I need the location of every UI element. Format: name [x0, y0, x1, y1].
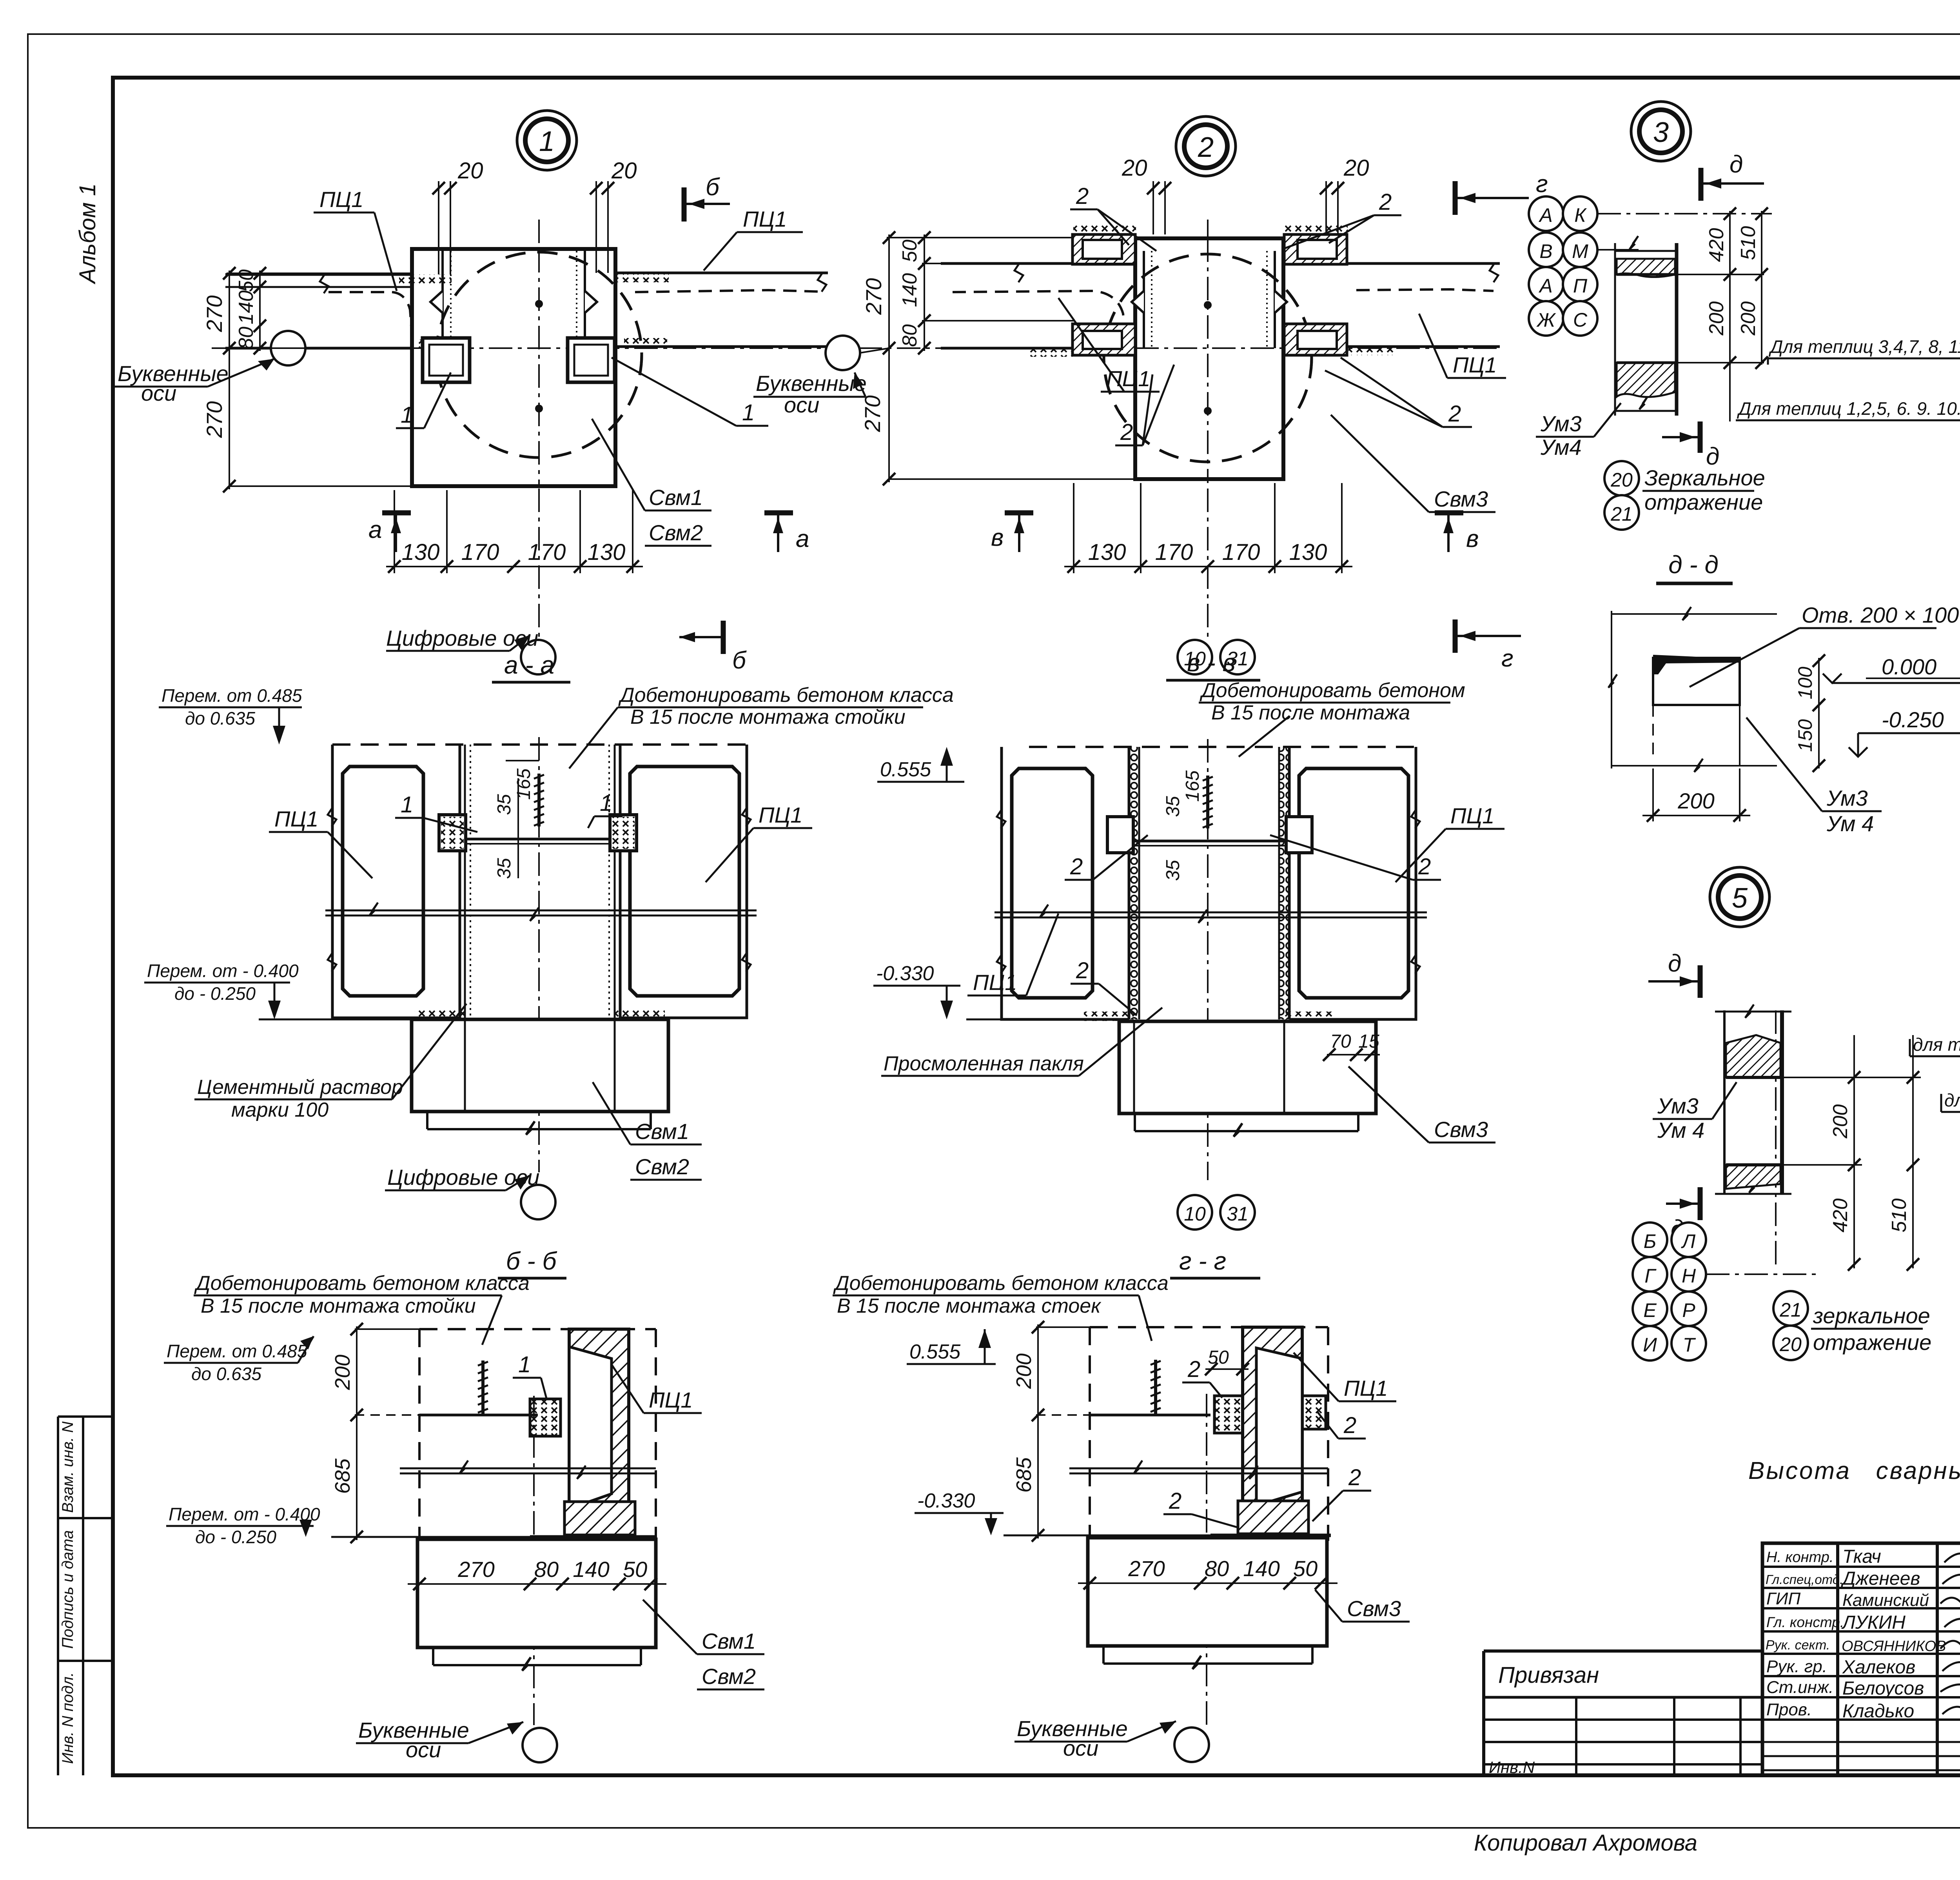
svg-text:685: 685: [1012, 1457, 1036, 1493]
svg-text:20: 20: [457, 158, 483, 183]
circles 21 20: [1773, 1291, 1808, 1326]
svg-text:-0.250: -0.250: [1882, 707, 1944, 732]
svg-text:Свм2: Свм2: [702, 1664, 756, 1689]
concrete top line: [419, 1414, 538, 1417]
digit axes label + circle: [521, 1185, 555, 1219]
circles 10 31: [1178, 1195, 1212, 1230]
svg-text:2: 2: [1343, 1413, 1356, 1438]
svg-text:2: 2: [1348, 1465, 1361, 1490]
svg-text:а: а: [796, 525, 809, 552]
section marker d top: [1701, 151, 1764, 201]
svg-text:А: А: [1538, 204, 1552, 226]
dim chain left: [1036, 1324, 1092, 1539]
axis redraw inside square: [412, 347, 615, 349]
xxx strips top: [1073, 225, 1136, 234]
svg-text:20: 20: [1610, 469, 1633, 491]
svg-text:35: 35: [494, 858, 515, 879]
svg-text:Привязан: Привязан: [1498, 1662, 1599, 1688]
bottom dims 270 80 140 50: [408, 1583, 666, 1585]
left grout strip: [443, 251, 451, 348]
svg-text:Ум3: Ум3: [1540, 411, 1582, 436]
left beam: [941, 263, 1135, 348]
axis circles 2x4: [1633, 1222, 1667, 1257]
top-left hatched block: [1073, 234, 1135, 264]
top dim 20 right: [596, 181, 608, 273]
svg-text:И: И: [1643, 1334, 1657, 1356]
svg-text:20: 20: [1343, 155, 1369, 181]
section marker d top: [1648, 950, 1700, 998]
svg-text:80: 80: [1205, 1556, 1229, 1581]
svg-text:Гл.спец,отд.: Гл.спец,отд.: [1766, 1572, 1843, 1587]
svg-text:35: 35: [1163, 796, 1183, 817]
svg-text:в: в: [991, 524, 1004, 551]
svg-text:В 15 после монтажа стоек: В 15 после монтажа стоек: [837, 1295, 1102, 1317]
svg-text:Н. контр.: Н. контр.: [1766, 1549, 1833, 1566]
svg-text:д: д: [1730, 151, 1743, 178]
left V notch: [430, 291, 443, 313]
svg-text:Г: Г: [1644, 1265, 1657, 1287]
section marker v left: [991, 513, 1033, 552]
anchor rod hatched: [1203, 776, 1213, 828]
svg-text:200: 200: [1677, 788, 1714, 813]
svg-text:2: 2: [1187, 1357, 1200, 1382]
svg-text:20: 20: [1779, 1333, 1802, 1355]
left panel: [997, 747, 1129, 1019]
dashed circle Svm3: [1104, 254, 1312, 462]
svg-text:Рук. сект.: Рук. сект.: [1766, 1638, 1830, 1653]
svg-text:50: 50: [1208, 1347, 1229, 1368]
svg-text:80: 80: [898, 324, 921, 347]
detail bubble 5: [1710, 867, 1769, 927]
svg-text:80: 80: [534, 1557, 559, 1582]
svg-text:б: б: [706, 174, 720, 201]
right V notch: [585, 291, 597, 313]
svg-text:Просмоленная пакля: Просмоленная пакля: [884, 1052, 1084, 1075]
svg-text:Добетонировать бетоном класса: Добетонировать бетоном класса: [194, 1272, 530, 1295]
svg-text:Добетонировать бетоном: Добетонировать бетоном: [1200, 679, 1465, 702]
column strip: [1715, 1004, 1791, 1195]
svg-text:420: 420: [1705, 228, 1728, 262]
hatched slab PC1: [569, 1329, 629, 1529]
grout strips with circles: [1129, 747, 1139, 1019]
left beam: [225, 274, 412, 348]
svg-text:Ум 4: Ум 4: [1826, 811, 1874, 836]
svg-text:ПЦ1: ПЦ1: [743, 207, 787, 231]
svg-text:130: 130: [588, 539, 626, 565]
svg-text:д: д: [1668, 950, 1681, 977]
svg-text:зеркальное: зеркальное: [1813, 1303, 1930, 1328]
svg-text:35: 35: [1163, 860, 1183, 881]
xxxxx strips at column base: [1084, 1012, 1134, 1021]
svg-text:170: 170: [528, 539, 566, 565]
section marker d bottom: [1666, 1187, 1700, 1242]
xxx hatch right beam top: [616, 273, 669, 282]
svg-text:510: 510: [1888, 1199, 1911, 1233]
xxxxx strips at column base: [415, 1010, 465, 1019]
section marker g bottom: [1455, 619, 1521, 672]
detail bubble 2: [1176, 116, 1236, 176]
svg-text:В 15 после монтажа: В 15 после монтажа: [1211, 701, 1410, 724]
bottom-right hatched block: [1284, 324, 1347, 355]
top dim 20 left: [1153, 181, 1165, 234]
svg-text:130: 130: [1289, 539, 1327, 565]
svg-text:1: 1: [518, 1352, 531, 1377]
svg-text:В 15 после монтажа стойки: В 15 после монтажа стойки: [201, 1295, 476, 1317]
V notches: [1132, 291, 1144, 313]
svg-text:270: 270: [202, 401, 227, 438]
svg-text:Взам. инв. N: Взам. инв. N: [59, 1421, 76, 1513]
seat box with xxx: [530, 1399, 561, 1436]
svg-text:0.000: 0.000: [1882, 654, 1936, 679]
circles 10 31: [1178, 640, 1212, 674]
svg-text:Отв. 200 × 100: Отв. 200 × 100: [1802, 603, 1959, 627]
svg-text:0.555: 0.555: [909, 1341, 961, 1363]
svg-text:ПЦ1: ПЦ1: [1106, 366, 1150, 391]
svg-text:2: 2: [1379, 189, 1392, 215]
svg-text:В 15 после монтажа стойки: В 15 после монтажа стойки: [630, 706, 906, 728]
svg-text:в: в: [1466, 525, 1479, 552]
svg-text:100: 100: [1794, 667, 1816, 699]
svg-text:Инв.N: Инв.N: [1489, 1758, 1535, 1776]
dashed circle Svm: [436, 252, 642, 458]
svg-text:ЛУКИН: ЛУКИН: [1841, 1612, 1906, 1633]
svg-text:Зеркальное: Зеркальное: [1644, 465, 1765, 490]
svg-text:оси: оси: [406, 1737, 441, 1762]
svg-text:35: 35: [494, 794, 515, 815]
svg-text:до - 0.250: до - 0.250: [195, 1527, 276, 1547]
center axis: [533, 1396, 535, 1725]
svg-text:Белоусов: Белоусов: [1842, 1678, 1924, 1699]
xxx hatch left seat: [416, 340, 459, 348]
svg-text:Свм1: Свм1: [649, 485, 703, 510]
svg-text:Свм1: Свм1: [635, 1119, 689, 1144]
svg-text:2: 2: [1198, 132, 1214, 163]
center axis: [1207, 739, 1209, 1180]
svg-text:80: 80: [235, 327, 258, 349]
center dot upper: [535, 300, 543, 308]
svg-text:5: 5: [1732, 883, 1748, 914]
svg-text:до 0.635: до 0.635: [185, 708, 255, 728]
mid break lines: [995, 905, 1427, 923]
signature squiggles: [1940, 1543, 1960, 1724]
svg-text:б: б: [732, 647, 747, 674]
svg-text:Ж: Ж: [1536, 309, 1556, 331]
svg-text:165: 165: [514, 768, 534, 800]
svg-text:Свм3: Свм3: [1347, 1596, 1401, 1621]
svg-text:Перем. от 0.485: Перем. от 0.485: [167, 1341, 307, 1361]
svg-text:Ум4: Ум4: [1540, 435, 1582, 460]
svg-text:Р: Р: [1682, 1299, 1695, 1321]
svg-text:отражение: отражение: [1644, 490, 1763, 514]
svg-text:Буквенные: Буквенные: [756, 371, 867, 396]
svg-text:отражение: отражение: [1813, 1330, 1931, 1355]
svg-text:2: 2: [1448, 401, 1461, 427]
right grout strip: [577, 251, 585, 348]
svg-text:-0.330: -0.330: [917, 1489, 975, 1512]
svg-text:до - 0.250: до - 0.250: [174, 983, 256, 1004]
svg-text:50: 50: [235, 269, 258, 292]
horizontal axis: [858, 347, 1501, 349]
svg-text:Альбом 1: Альбом 1: [75, 183, 100, 285]
anchor rod hatched: [1151, 1360, 1161, 1415]
xxx hatch left beam top: [399, 274, 452, 284]
svg-text:170: 170: [1222, 539, 1260, 565]
svg-text:ПЦ1: ПЦ1: [973, 970, 1017, 995]
letter axes label + circle: [1174, 1727, 1209, 1762]
svg-text:Каминский: Каминский: [1842, 1591, 1929, 1610]
svg-text:Добетонировать бетоном класса: Добетонировать бетоном класса: [833, 1272, 1169, 1295]
right beam: [615, 273, 828, 347]
svg-text:Кладько: Кладько: [1842, 1701, 1914, 1722]
dashed circle redraw inside square: [436, 252, 642, 458]
svg-text:1: 1: [401, 792, 413, 817]
svg-text:П: П: [1573, 275, 1588, 297]
svg-text:50: 50: [898, 240, 921, 262]
bottom dims 270 80 140 50: [1078, 1582, 1338, 1584]
top dim line: [1608, 607, 1777, 768]
svg-text:270: 270: [202, 295, 227, 332]
hatched slab PC1: [1243, 1327, 1302, 1527]
svg-text:270: 270: [457, 1557, 494, 1582]
svg-text:Е: Е: [1643, 1299, 1657, 1321]
top-right hatched block: [1284, 234, 1347, 264]
section marker v right: [1435, 513, 1479, 552]
column square outline: [1135, 238, 1283, 479]
svg-text:Свм3: Свм3: [1434, 1117, 1488, 1142]
xxx hatch right seat: [624, 338, 667, 347]
svg-text:510: 510: [1737, 226, 1760, 260]
svg-text:для теплиц 3.4,7,8,11,12,15,16: для теплиц 3.4,7,8,11,12,15,16: [1913, 1034, 1960, 1055]
anchor rod hatched: [478, 1361, 488, 1415]
dim 200 bottom: [1642, 768, 1750, 821]
axis line from N: [1706, 1273, 1819, 1275]
svg-text:ПЦ1: ПЦ1: [1344, 1376, 1388, 1400]
svg-text:200: 200: [1705, 302, 1728, 336]
svg-text:20: 20: [1122, 155, 1147, 181]
seat plates: [1107, 817, 1312, 853]
digit axes label + circle: [521, 640, 555, 674]
svg-text:2: 2: [1169, 1488, 1181, 1514]
svg-text:оси: оси: [1063, 1736, 1098, 1760]
svg-text:20: 20: [611, 158, 637, 183]
vertical axis line: [538, 220, 540, 639]
svg-text:1: 1: [742, 400, 755, 425]
svg-text:ПЦ1: ПЦ1: [649, 1388, 693, 1412]
svg-text:170: 170: [1155, 539, 1193, 565]
right beam: [1283, 263, 1500, 347]
bottom hatch band: [1617, 363, 1675, 397]
box with black wedge: [1653, 658, 1740, 705]
svg-text:270: 270: [861, 278, 886, 315]
svg-text:г: г: [1501, 645, 1514, 672]
svg-text:Ум3: Ум3: [1657, 1093, 1699, 1118]
svg-text:50: 50: [1293, 1556, 1318, 1581]
dashed zone outline: [419, 1329, 656, 1541]
center axis dash-dot: [538, 737, 540, 1172]
svg-text:-0.330: -0.330: [876, 962, 934, 985]
svg-text:1: 1: [401, 402, 413, 428]
right seat box: [568, 338, 615, 382]
pedestal base strip: [1135, 1113, 1358, 1137]
svg-text:до 0.635: до 0.635: [191, 1364, 261, 1384]
letter axes label + circle: [826, 336, 860, 370]
level extension line: [1004, 1535, 1211, 1537]
svg-text:140: 140: [1243, 1556, 1279, 1581]
dim lines 420 510 200 200: [1678, 211, 1764, 365]
svg-text:а: а: [368, 516, 382, 543]
left margin label boxes: [58, 1417, 113, 1775]
svg-text:270: 270: [1128, 1556, 1165, 1581]
svg-text:В: В: [1539, 240, 1552, 262]
svg-text:А: А: [1538, 275, 1552, 297]
letter axes label + circle: [271, 331, 305, 365]
letter axes label + circle: [523, 1728, 557, 1762]
floor line: [1210, 1534, 1331, 1537]
section marker a left: [368, 513, 411, 552]
svg-text:ПЦ1: ПЦ1: [319, 187, 363, 212]
pedestal base strip: [433, 1647, 641, 1671]
svg-text:Рук. гр.: Рук. гр.: [1766, 1657, 1827, 1676]
svg-text:140: 140: [235, 291, 258, 325]
axis circles letters: [1529, 196, 1563, 231]
center axis: [1206, 1394, 1207, 1725]
dashed zone outline: [1090, 1327, 1328, 1541]
detail bubble 3: [1631, 102, 1691, 161]
section marker a right: [764, 513, 809, 552]
svg-text:2: 2: [1418, 854, 1431, 879]
svg-text:Л: Л: [1681, 1230, 1696, 1252]
column faces with grout dots: [465, 745, 615, 1019]
svg-text:ОВСЯННИКОВ: ОВСЯННИКОВ: [1842, 1638, 1946, 1655]
top hatch band: [1617, 259, 1675, 277]
left dim chain lines: [227, 271, 414, 489]
svg-text:150: 150: [1794, 719, 1816, 752]
svg-text:С: С: [1573, 309, 1588, 331]
svg-text:Перем. от - 0.400: Перем. от - 0.400: [147, 961, 299, 981]
svg-text:Перем. от 0.485: Перем. от 0.485: [162, 685, 302, 706]
svg-text:ПЦ1: ПЦ1: [1453, 352, 1497, 377]
svg-text:130: 130: [402, 539, 440, 565]
svg-text:ГИП: ГИП: [1766, 1589, 1800, 1608]
svg-text:оси: оси: [141, 381, 176, 405]
svg-text:Добетонировать бетоном класса: Добетонировать бетоном класса: [618, 684, 954, 707]
svg-text:Для теплиц 3,4,7, 8, 11,12,15: Для теплиц 3,4,7, 8, 11,12,15,16: [1768, 336, 1960, 357]
svg-text:0.555: 0.555: [880, 758, 931, 781]
wall strip column: [1615, 236, 1677, 416]
column square outline: [412, 249, 615, 486]
svg-text:ПЦ1: ПЦ1: [759, 803, 802, 827]
svg-text:марки 100: марки 100: [231, 1099, 328, 1121]
svg-text:130: 130: [1088, 539, 1126, 565]
svg-text:в - в: в - в: [1187, 648, 1236, 677]
right panel: [1289, 747, 1420, 1019]
svg-text:140: 140: [573, 1557, 609, 1582]
svg-text:2: 2: [1076, 183, 1089, 209]
svg-text:270: 270: [860, 395, 885, 432]
dim lines 200 420 510: [1784, 1035, 1921, 1268]
bottom dim chain: [386, 490, 643, 573]
hatched base block: [1238, 1501, 1308, 1534]
svg-text:165: 165: [1182, 770, 1203, 802]
svg-text:М: М: [1572, 240, 1588, 262]
svg-text:1: 1: [600, 790, 612, 816]
svg-text:31: 31: [1227, 1203, 1249, 1225]
top dashed line: [1029, 746, 1419, 748]
left panel PC1: [328, 745, 460, 1018]
top dashed line: [332, 743, 749, 746]
svg-text:Свм2: Свм2: [649, 520, 703, 545]
floor line: [530, 1535, 656, 1539]
svg-text:Ткач: Ткач: [1842, 1546, 1881, 1567]
svg-text:170: 170: [461, 539, 499, 565]
top dim 20 right: [1326, 181, 1338, 234]
svg-text:Высота сварных швов hш =: Высота сварных швов hш = 6.0мм: [1748, 1457, 1960, 1484]
svg-text:50: 50: [623, 1557, 647, 1582]
vertical axis: [1775, 1010, 1777, 1266]
concrete top line: [1090, 1414, 1210, 1417]
level line lower: [966, 1019, 1120, 1021]
svg-text:Дженеев: Дженеев: [1840, 1568, 1920, 1589]
pedestal: [1119, 1021, 1376, 1113]
dim 100 150: [1818, 658, 1820, 768]
svg-text:Ст.инж.: Ст.инж.: [1766, 1678, 1833, 1697]
pedestal: [412, 1019, 668, 1112]
left dim chain: [887, 234, 1137, 482]
xxx strips at beam bottom: [1027, 348, 1073, 357]
vertical axis: [1207, 220, 1209, 639]
mid break lines: [400, 1460, 656, 1479]
svg-text:Инв. N подл.: Инв. N подл.: [59, 1672, 76, 1764]
svg-text:Халеков: Халеков: [1842, 1657, 1915, 1678]
svg-text:д - д: д - д: [1668, 550, 1719, 579]
svg-text:21: 21: [1779, 1299, 1802, 1321]
svg-text:Гл. констр.: Гл. констр.: [1766, 1614, 1844, 1630]
svg-text:Свм1: Свм1: [702, 1629, 756, 1653]
top hatch band: [1726, 1035, 1780, 1077]
center dot lower: [535, 405, 543, 412]
anchor rod hatched: [534, 774, 544, 826]
bottom-left hatched block: [1073, 324, 1135, 355]
horizontal axis from K: [1597, 213, 1772, 214]
svg-text:2: 2: [1076, 958, 1089, 983]
section marker b bottom: [679, 621, 747, 674]
left seat box: [423, 338, 470, 382]
svg-text:ПЦ1: ПЦ1: [274, 806, 318, 831]
seat plates: [439, 815, 637, 851]
svg-text:Свм3: Свм3: [1434, 487, 1488, 511]
svg-text:Перем. от - 0.400: Перем. от - 0.400: [169, 1504, 320, 1524]
bottom dim chain: [1064, 483, 1352, 573]
dim chain left: [355, 1326, 421, 1540]
level extension line: [331, 1536, 531, 1538]
center dots: [1204, 301, 1212, 309]
detail bubble 1: [517, 111, 577, 170]
svg-text:г - г: г - г: [1179, 1247, 1226, 1275]
svg-text:2: 2: [1070, 854, 1083, 879]
svg-text:Пров.: Пров.: [1766, 1700, 1812, 1719]
section marker d bottom: [1662, 421, 1719, 470]
svg-text:2: 2: [1120, 420, 1133, 445]
svg-text:Подпись и дата: Подпись и дата: [59, 1530, 76, 1649]
mid break lines: [325, 903, 757, 921]
section marker b top: [684, 174, 730, 222]
svg-text:3: 3: [1653, 117, 1669, 148]
svg-text:70: 70: [1330, 1031, 1351, 1052]
svg-text:200: 200: [1829, 1104, 1852, 1139]
mid break lines: [1069, 1460, 1328, 1479]
horizontal axis line: [212, 347, 829, 349]
svg-text:а - а: а - а: [504, 651, 554, 679]
